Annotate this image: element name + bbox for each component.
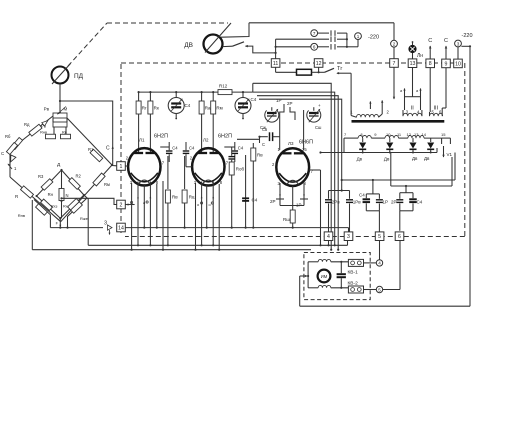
svg-text:Rв: Rв <box>257 153 263 158</box>
svg-text:II: II <box>411 106 415 112</box>
svg-text:2Р: 2Р <box>391 199 397 204</box>
svg-text:Тг: Тг <box>337 66 342 72</box>
svg-text:ИМ: ИМ <box>321 274 328 279</box>
svg-text:4: 4 <box>327 234 330 240</box>
svg-text:С: С <box>262 142 265 147</box>
svg-text:5: 5 <box>378 287 381 292</box>
svg-text:о: о <box>209 203 211 207</box>
svg-text:Дв: Дв <box>424 156 430 161</box>
svg-text:4: 4 <box>378 261 381 266</box>
svg-text:6Н2П: 6Н2П <box>218 134 232 140</box>
svg-text:Л1: Л1 <box>139 138 145 143</box>
svg-text:2: 2 <box>120 202 123 208</box>
svg-text:3: 3 <box>347 234 350 240</box>
svg-text:Rм: Rм <box>104 182 110 187</box>
svg-text:Rх: Rх <box>63 205 68 209</box>
svg-text:-220: -220 <box>462 33 473 39</box>
svg-text:Rв: Rв <box>172 195 178 200</box>
svg-text:С4: С4 <box>172 146 178 151</box>
svg-text:С: С <box>106 146 110 152</box>
svg-text:R3: R3 <box>38 174 44 179</box>
svg-text:Rн: Rн <box>48 192 54 197</box>
svg-text:2: 2 <box>393 42 396 47</box>
svg-text:Rнв: Rнв <box>18 213 25 218</box>
svg-text:Rхз: Rхз <box>51 205 58 209</box>
svg-text:12: 12 <box>407 132 412 137</box>
svg-text:V1: V1 <box>447 152 453 157</box>
svg-text:-220: -220 <box>368 35 379 41</box>
svg-text:Rоб: Rоб <box>236 167 245 172</box>
svg-text:С4: С4 <box>252 198 258 203</box>
svg-text:Лн: Лн <box>417 53 423 59</box>
svg-text:R1: R1 <box>88 147 94 152</box>
svg-text:Rг: Rг <box>142 106 147 111</box>
svg-text:Сж: Сж <box>260 125 266 130</box>
svg-text:6Н2П: 6Н2П <box>154 134 168 140</box>
svg-text:R12: R12 <box>219 84 228 89</box>
svg-text:10: 10 <box>455 61 461 67</box>
svg-text:25: 25 <box>302 147 307 152</box>
svg-text:2Рв: 2Рв <box>332 199 341 204</box>
svg-text:1: 1 <box>120 164 123 170</box>
svg-text:С: С <box>428 38 432 44</box>
svg-text:12: 12 <box>316 61 322 67</box>
svg-text:7: 7 <box>393 61 396 67</box>
svg-text:Rв: Rв <box>62 131 67 135</box>
svg-text:С4: С4 <box>251 97 257 102</box>
svg-text:2Р: 2Р <box>270 199 276 204</box>
svg-text:Rб: Rб <box>5 134 11 139</box>
svg-text:III: III <box>434 106 439 112</box>
svg-text:З: З <box>104 221 107 227</box>
svg-text:С4: С4 <box>238 146 244 151</box>
svg-text:КВ-1: КВ-1 <box>348 270 359 276</box>
svg-text:Дв: Дв <box>384 157 390 162</box>
svg-text:ПД: ПД <box>74 73 84 80</box>
svg-text:6: 6 <box>313 45 316 50</box>
svg-text:N: N <box>66 193 69 198</box>
svg-text:С: С <box>444 38 448 44</box>
svg-text:5: 5 <box>378 234 381 240</box>
svg-text:6Н6П: 6Н6П <box>299 140 313 146</box>
svg-text:Rш: Rш <box>283 217 290 222</box>
svg-text:С4: С4 <box>185 103 191 108</box>
svg-text:Rш: Rш <box>189 195 196 200</box>
svg-text:Rже: Rже <box>80 216 89 221</box>
svg-text:Rнв: Rнв <box>40 131 47 135</box>
svg-text:Rм: Rм <box>216 106 222 111</box>
svg-text:14: 14 <box>422 132 427 137</box>
svg-text:13: 13 <box>414 132 419 137</box>
svg-text:11: 11 <box>273 61 278 67</box>
svg-text:7: 7 <box>313 31 316 36</box>
svg-text:10: 10 <box>386 132 391 137</box>
svg-text:Rд: Rд <box>24 122 30 127</box>
svg-text:2Р: 2Р <box>287 101 293 106</box>
svg-text:Л3: Л3 <box>288 141 294 146</box>
svg-text:R2: R2 <box>76 174 82 179</box>
svg-text:ДВ: ДВ <box>184 42 193 49</box>
svg-text:Rа: Rа <box>205 106 211 111</box>
svg-text:3: 3 <box>457 41 460 46</box>
svg-text:1Рв: 1Рв <box>353 199 362 204</box>
svg-text:Rк: Rк <box>154 106 159 111</box>
svg-text:о: о <box>197 203 199 207</box>
svg-text:15: 15 <box>441 132 446 137</box>
svg-text:8: 8 <box>429 61 432 67</box>
svg-text:С4: С4 <box>189 146 195 151</box>
svg-text:6: 6 <box>398 234 401 240</box>
svg-text:1: 1 <box>357 34 360 39</box>
svg-text:С4: С4 <box>417 199 423 204</box>
svg-text:С4: С4 <box>359 193 365 198</box>
svg-text:9: 9 <box>445 61 448 67</box>
svg-text:14: 14 <box>118 225 124 231</box>
svg-text:Дв: Дв <box>357 157 363 162</box>
svg-text:13: 13 <box>410 61 416 67</box>
svg-text:Л2: Л2 <box>203 138 209 143</box>
svg-text:Рв: Рв <box>44 107 50 112</box>
svg-text:Сш: Сш <box>315 125 322 130</box>
svg-text:1Р: 1Р <box>383 199 389 204</box>
svg-text:Дв: Дв <box>412 156 418 161</box>
svg-text:+: + <box>318 103 321 108</box>
